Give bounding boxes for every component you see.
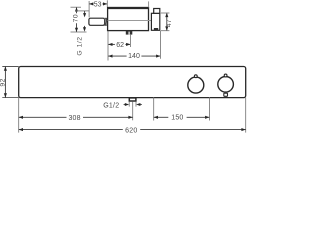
- svg-text:G1/2: G1/2: [103, 103, 119, 110]
- svg-text:53: 53: [94, 1, 102, 8]
- svg-text:92: 92: [0, 78, 7, 87]
- svg-text:62: 62: [116, 42, 124, 49]
- svg-text:140: 140: [128, 53, 140, 60]
- svg-text:308: 308: [68, 115, 80, 122]
- svg-text:47: 47: [166, 19, 173, 27]
- svg-text:G 1/2: G 1/2: [77, 36, 84, 55]
- svg-text:150: 150: [171, 114, 183, 121]
- svg-text:70: 70: [72, 14, 79, 23]
- svg-text:620: 620: [125, 127, 137, 134]
